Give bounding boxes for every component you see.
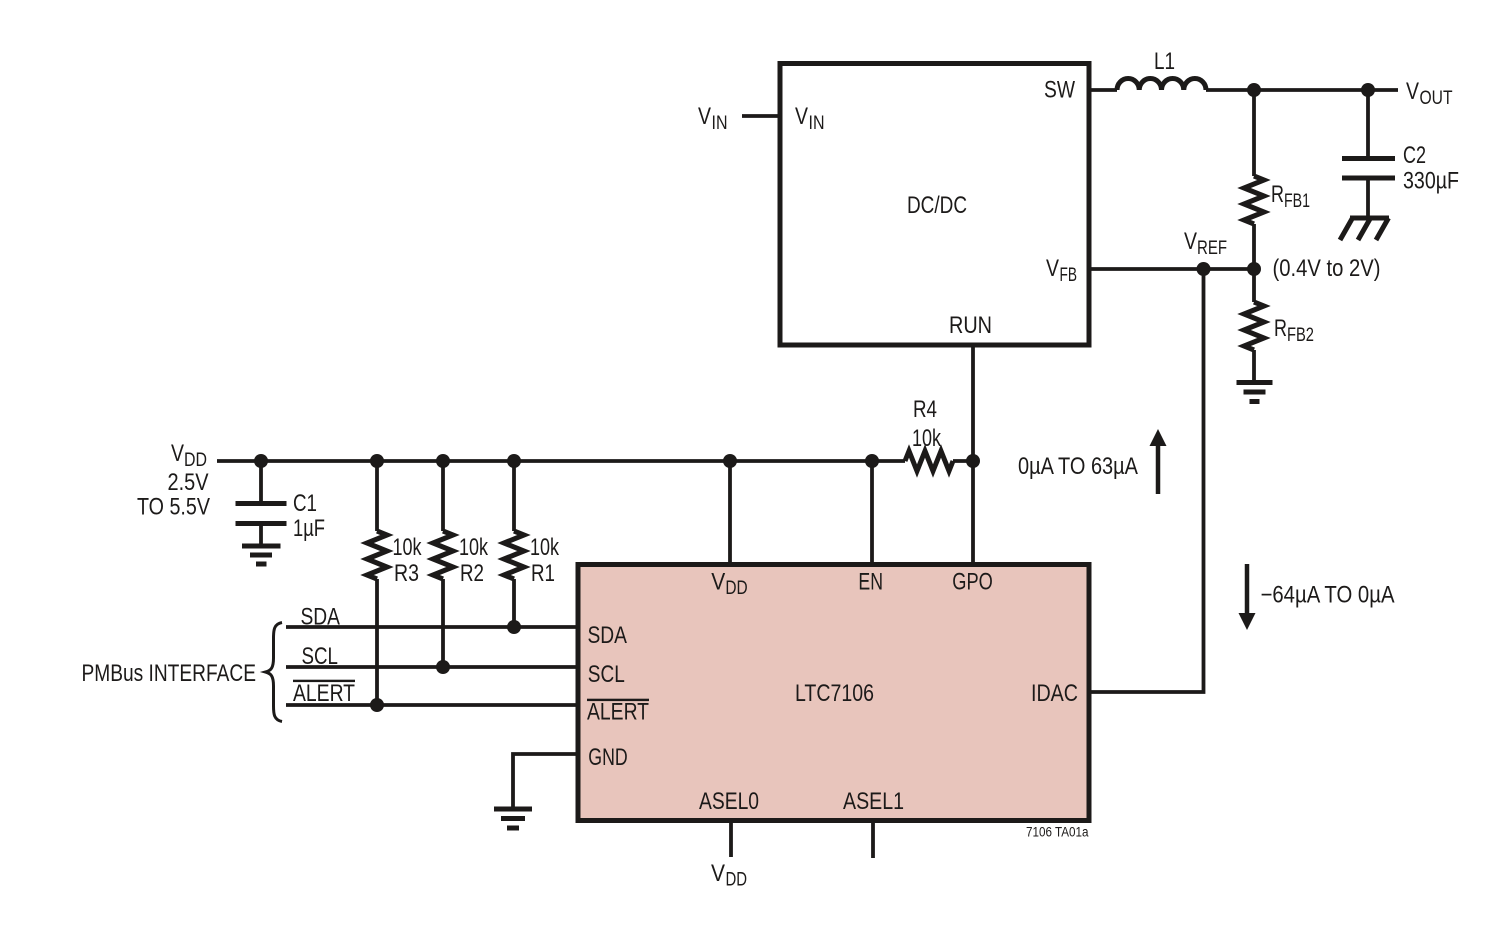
wire VDD to R1 bbox=[512, 461, 516, 531]
svg-text:FB1: FB1 bbox=[1284, 191, 1310, 212]
svg-text:V: V bbox=[1184, 228, 1197, 255]
svg-text:C2: C2 bbox=[1403, 142, 1426, 169]
svg-text:FB2: FB2 bbox=[1287, 325, 1314, 346]
wire ASEL1 stub bbox=[871, 821, 875, 858]
svg-text:1µF: 1µF bbox=[293, 515, 325, 542]
svg-text:SDA: SDA bbox=[588, 622, 628, 649]
wire VOUT node down to C2 bbox=[1366, 90, 1370, 156]
wire VDD to R3 bbox=[375, 461, 379, 531]
current arrow down -64uA to 0uA bbox=[1239, 564, 1256, 630]
resistor RFB1 bbox=[1244, 176, 1264, 224]
svg-text:PMBus INTERFACE: PMBus INTERFACE bbox=[82, 660, 257, 687]
svg-text:V: V bbox=[711, 569, 725, 596]
svg-text:V: V bbox=[1046, 255, 1059, 282]
junction node ALERT/R3 bbox=[370, 698, 384, 712]
wire SDA bus line bbox=[286, 625, 578, 629]
capacitor C2 bbox=[1342, 159, 1395, 179]
svg-text:ALERT: ALERT bbox=[293, 680, 355, 707]
wire C2 to chassis ground bbox=[1366, 180, 1370, 218]
ground at RFB2 bbox=[1237, 383, 1273, 402]
svg-text:EN: EN bbox=[858, 569, 883, 596]
resistor R3 bbox=[367, 531, 387, 579]
brace PMBus interface bbox=[266, 623, 283, 722]
current arrow up 0uA to 63uA bbox=[1150, 429, 1167, 494]
svg-text:R1: R1 bbox=[531, 560, 555, 587]
svg-text:7106 TA01a: 7106 TA01a bbox=[1026, 825, 1089, 840]
svg-text:R4: R4 bbox=[913, 396, 937, 423]
wire ALERT bus line bbox=[286, 703, 578, 707]
wire IDAC to VREF riser bbox=[1090, 269, 1204, 692]
svg-text:V: V bbox=[171, 440, 184, 467]
resistor RFB2 bbox=[1244, 302, 1264, 350]
wire VDD to R2 bbox=[441, 461, 445, 531]
svg-text:10k: 10k bbox=[912, 425, 942, 452]
overline ALERT pin bbox=[587, 699, 649, 701]
ground at C1 bbox=[242, 546, 281, 564]
svg-text:R: R bbox=[1271, 181, 1284, 208]
wire VDD node to C1 bbox=[259, 461, 263, 501]
svg-text:SCL: SCL bbox=[588, 661, 625, 688]
svg-text:R3: R3 bbox=[394, 560, 419, 587]
svg-text:V: V bbox=[795, 103, 808, 130]
capacitor C1 bbox=[236, 504, 287, 524]
wire L1 to VOUT bbox=[1206, 88, 1398, 92]
svg-text:DC/DC: DC/DC bbox=[907, 192, 967, 219]
wire VFB to divider tap bbox=[1090, 267, 1254, 271]
svg-text:R: R bbox=[1274, 315, 1287, 342]
svg-text:TO 5.5V: TO 5.5V bbox=[137, 494, 210, 521]
svg-text:V: V bbox=[698, 103, 711, 130]
svg-text:ASEL1: ASEL1 bbox=[843, 788, 904, 815]
svg-text:ALERT: ALERT bbox=[587, 699, 649, 726]
junction node VDD/R1 bbox=[507, 454, 521, 468]
svg-text:RUN: RUN bbox=[949, 312, 992, 339]
svg-text:(0.4V to 2V): (0.4V to 2V) bbox=[1273, 255, 1381, 282]
svg-text:10k: 10k bbox=[530, 534, 560, 561]
wire R3 to ALERT line bbox=[375, 579, 379, 705]
wire VDD pin riser bbox=[728, 461, 732, 565]
wire tap to RFB2 bbox=[1252, 269, 1256, 302]
junction node EN pin bbox=[865, 454, 879, 468]
junction node SW/RFB1 bbox=[1247, 83, 1261, 97]
svg-text:C1: C1 bbox=[293, 490, 317, 517]
wire C1 to ground bbox=[259, 526, 263, 544]
wire EN pin riser bbox=[870, 461, 874, 565]
junction node VOUT/C2 bbox=[1361, 83, 1375, 97]
IC LTC7106 block bbox=[578, 565, 1089, 821]
svg-text:R2: R2 bbox=[460, 560, 484, 587]
wire SW node down to RFB1 bbox=[1252, 90, 1256, 176]
wire SCL bus line bbox=[286, 665, 578, 669]
svg-text:OUT: OUT bbox=[1420, 88, 1453, 109]
wire R2 to SCL line bbox=[441, 579, 445, 667]
svg-text:10k: 10k bbox=[393, 534, 423, 561]
svg-text:DD: DD bbox=[725, 578, 747, 599]
wire SW to L1 bbox=[1090, 88, 1117, 92]
svg-text:V: V bbox=[1406, 78, 1419, 105]
junction node divider tap bbox=[1247, 262, 1261, 276]
junction node VDD/C1 bbox=[254, 454, 268, 468]
svg-text:IDAC: IDAC bbox=[1031, 680, 1078, 707]
svg-text:V: V bbox=[711, 860, 725, 887]
wire RUN to GPO bbox=[971, 345, 975, 564]
chassis ground at C2 bbox=[1340, 218, 1389, 240]
svg-text:ASEL0: ASEL0 bbox=[699, 788, 759, 815]
svg-text:SCL: SCL bbox=[302, 643, 338, 670]
resistor R2 bbox=[433, 531, 453, 579]
junction node GPO/RUN/R4 bbox=[966, 454, 980, 468]
svg-text:GND: GND bbox=[588, 744, 627, 771]
svg-text:2.5V: 2.5V bbox=[168, 469, 209, 496]
svg-text:L1: L1 bbox=[1154, 48, 1175, 75]
svg-text:GPO: GPO bbox=[952, 569, 993, 596]
inductor L1 bbox=[1117, 78, 1206, 90]
wire R4 to GPO node bbox=[953, 459, 975, 463]
junction node VDD pin bbox=[723, 454, 737, 468]
svg-text:LTC7106: LTC7106 bbox=[795, 680, 874, 707]
svg-text:−64µA TO 0µA: −64µA TO 0µA bbox=[1261, 582, 1395, 609]
resistor R4 bbox=[905, 451, 953, 471]
junction node SCL/R2 bbox=[436, 660, 450, 674]
svg-text:0µA TO 63µA: 0µA TO 63µA bbox=[1018, 453, 1138, 480]
svg-text:DD: DD bbox=[726, 870, 748, 891]
wire RFB2 to ground bbox=[1252, 350, 1256, 380]
svg-text:IN: IN bbox=[712, 113, 728, 134]
node VREF dot bbox=[1197, 262, 1211, 276]
svg-text:FB: FB bbox=[1060, 265, 1078, 286]
svg-text:IN: IN bbox=[809, 113, 825, 134]
wire VIN stub bbox=[742, 114, 779, 118]
wire ASEL0 stub bbox=[729, 821, 733, 857]
svg-text:10k: 10k bbox=[459, 534, 489, 561]
wire VDD rail bbox=[217, 459, 905, 463]
wire R1 to SDA line bbox=[512, 579, 516, 627]
svg-text:SDA: SDA bbox=[301, 604, 341, 631]
resistor R1 bbox=[504, 531, 524, 579]
wire GND pin to ground bbox=[513, 754, 578, 807]
junction node VDD/R2 bbox=[436, 454, 450, 468]
junction node SDA/R1 bbox=[507, 620, 521, 634]
svg-text:330µF: 330µF bbox=[1403, 168, 1459, 195]
overline ALERT bus bbox=[293, 680, 355, 682]
DC/DC converter block bbox=[780, 64, 1089, 346]
wire RFB1 to VREF node bbox=[1252, 224, 1256, 269]
svg-text:SW: SW bbox=[1044, 77, 1075, 104]
svg-text:REF: REF bbox=[1197, 238, 1227, 259]
ground at GND pin bbox=[494, 809, 532, 828]
svg-text:DD: DD bbox=[184, 450, 207, 471]
junction node VDD/R3 bbox=[370, 454, 384, 468]
